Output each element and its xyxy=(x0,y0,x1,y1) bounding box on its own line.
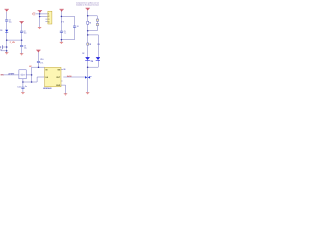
svg-text:C6: C6 xyxy=(77,26,79,28)
svg-text:10u: 10u xyxy=(9,21,12,23)
svg-text:installed on this board revisi: installed on this board revision xyxy=(76,4,99,7)
svg-text:P_VIN: P_VIN xyxy=(10,42,16,44)
svg-text:MP4423H-33: MP4423H-33 xyxy=(43,88,52,90)
svg-text:R3: R3 xyxy=(97,44,100,46)
svg-text:VM: VM xyxy=(29,66,32,68)
svg-text:10u: 10u xyxy=(24,33,27,35)
svg-text:C1: C1 xyxy=(9,20,11,22)
svg-text:VIN: VIN xyxy=(0,74,4,76)
svg-text:SHDN: SHDN xyxy=(67,76,72,78)
svg-text:Q1 NFET: Q1 NFET xyxy=(8,73,15,75)
svg-text:C3: C3 xyxy=(24,46,26,48)
svg-text:VM: VM xyxy=(57,69,60,71)
svg-text:C2: C2 xyxy=(24,31,26,33)
svg-text:1u: 1u xyxy=(64,33,67,35)
svg-text:4: 4 xyxy=(48,20,49,23)
svg-text:10u: 10u xyxy=(24,47,27,49)
svg-text:GND: GND xyxy=(56,85,61,87)
svg-text:C5: C5 xyxy=(64,31,66,33)
